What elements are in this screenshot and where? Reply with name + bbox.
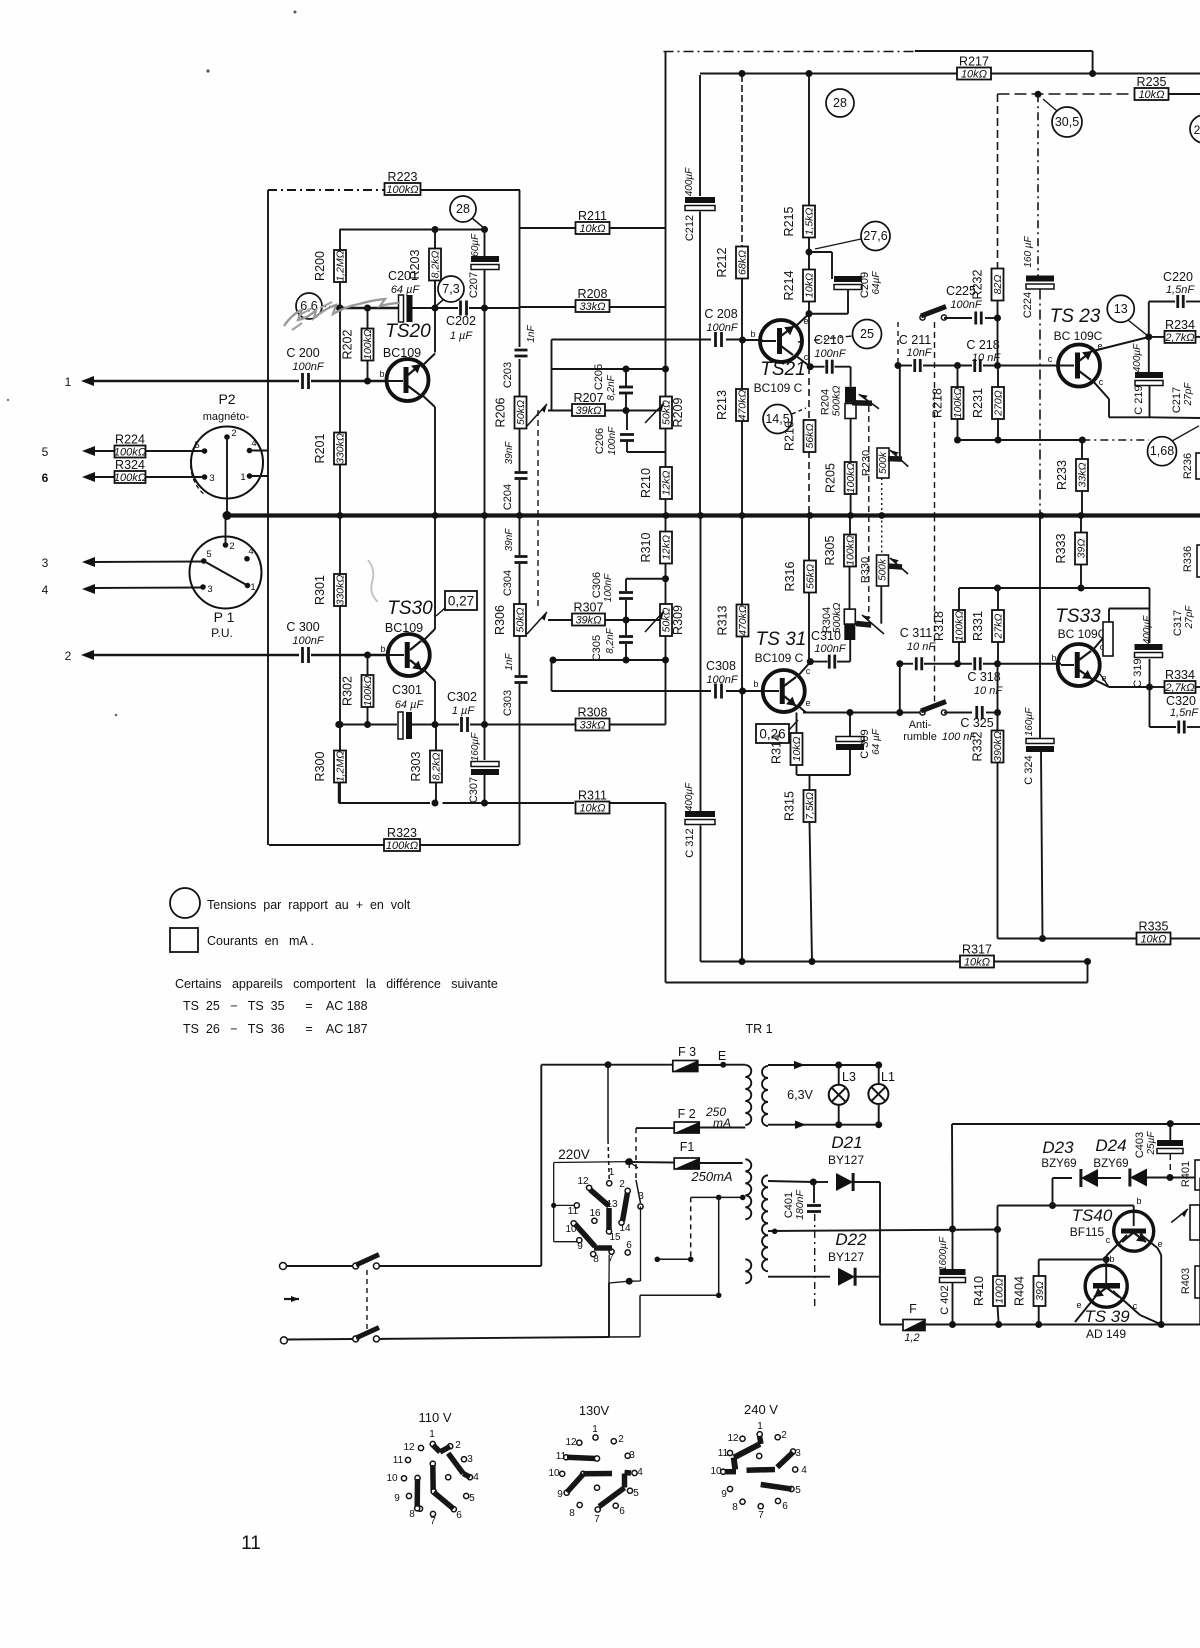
junction rail y1324 bbox=[995, 1321, 1002, 1328]
capacitor C312 400uF bbox=[685, 811, 715, 817]
svg-text:100nF: 100nF bbox=[950, 299, 982, 311]
svg-text:28: 28 bbox=[833, 96, 847, 110]
svg-text:56kΩ: 56kΩ bbox=[805, 564, 817, 589]
wire column x340 upper bbox=[339, 230, 341, 252]
svg-text:10kΩ: 10kΩ bbox=[1138, 89, 1164, 101]
svg-text:R217: R217 bbox=[959, 55, 989, 69]
svg-text:5: 5 bbox=[42, 445, 49, 459]
wire x998 R332 down bbox=[997, 938, 1000, 940]
capacitor C208 100nF bbox=[714, 332, 717, 347]
junction C225-R232 bbox=[994, 315, 1001, 322]
junction selector top right bbox=[626, 1158, 633, 1165]
svg-text:C203: C203 bbox=[502, 362, 514, 388]
lamp circuit bottom wire bbox=[768, 1124, 879, 1126]
svg-text:P2: P2 bbox=[218, 391, 235, 407]
wire bottom border of preamp block bbox=[269, 844, 384, 846]
wire P1 link pin5 to pin1 bbox=[204, 561, 248, 586]
svg-text:R316: R316 bbox=[783, 562, 797, 592]
svg-text:8: 8 bbox=[732, 1502, 738, 1513]
junction B x742 bbox=[739, 958, 746, 965]
wire TS39 emitter bbox=[1075, 1291, 1100, 1322]
svg-text:R213: R213 bbox=[715, 390, 729, 420]
svg-text:TS 25 − TS 35 =: TS 25 − TS 35 = AC 188 bbox=[183, 999, 368, 1013]
svg-text:8,2nF: 8,2nF bbox=[605, 627, 616, 653]
selector 130V bar 4-7 bbox=[625, 1470, 632, 1476]
svg-text:R324: R324 bbox=[115, 458, 145, 472]
dashed switch gang x934 bbox=[934, 322, 936, 516]
wire center tap bbox=[768, 1230, 998, 1232]
selector 110V bar mid vertical bbox=[430, 1461, 435, 1466]
capacitor C318 10nF bbox=[973, 657, 976, 670]
connector P1 P.U. bbox=[190, 537, 262, 609]
svg-text:10 nF: 10 nF bbox=[974, 685, 1003, 697]
svg-text:R230: R230 bbox=[861, 450, 873, 476]
wire x551 corner bbox=[551, 340, 553, 370]
svg-text:4: 4 bbox=[251, 438, 256, 449]
wire y578 C306 link bbox=[626, 578, 666, 580]
svg-text:Certains appareils comport: Certains appareils comportent la différe… bbox=[175, 977, 498, 991]
svg-text:39Ω: 39Ω bbox=[1034, 1281, 1046, 1301]
junction bus x=881 bbox=[878, 512, 885, 519]
svg-text:64µF: 64µF bbox=[871, 271, 882, 295]
svg-text:R300: R300 bbox=[313, 752, 327, 782]
svg-text:30,5: 30,5 bbox=[1055, 115, 1079, 129]
svg-text:e: e bbox=[1076, 1300, 1081, 1310]
junction R302 top bbox=[364, 652, 371, 659]
junction emitter R214 bbox=[806, 310, 813, 317]
capacitor C306 100nF bbox=[625, 579, 627, 591]
svg-text:R315: R315 bbox=[783, 791, 797, 821]
capacitor C308 100nF bbox=[714, 684, 717, 699]
wire TS33 emitter bbox=[1093, 679, 1109, 687]
junction y660 C305 bbox=[623, 657, 630, 664]
svg-text:160 µF: 160 µF bbox=[1023, 235, 1034, 267]
junction y440 R218 bbox=[954, 437, 961, 444]
svg-text:C 324: C 324 bbox=[1023, 755, 1035, 784]
svg-text:10 nF: 10 nF bbox=[907, 641, 936, 653]
junction y1177 x1170 bbox=[1167, 1174, 1174, 1181]
svg-text:BC109 C: BC109 C bbox=[754, 381, 803, 395]
svg-text:50kΩ: 50kΩ bbox=[515, 400, 527, 425]
svg-text:C403: C403 bbox=[1134, 1132, 1146, 1158]
svg-text:C 219: C 219 bbox=[1133, 385, 1145, 414]
speckle marks bbox=[294, 11, 297, 14]
junction x340 main wire bbox=[337, 305, 344, 312]
svg-text:D24: D24 bbox=[1095, 1136, 1126, 1155]
svg-text:250mA: 250mA bbox=[690, 1169, 732, 1184]
wire x608 to selector bbox=[607, 1065, 609, 1140]
selector 220V bar 13-15 bbox=[606, 1208, 612, 1230]
junction R302 bottom bbox=[364, 721, 371, 728]
svg-text:5: 5 bbox=[633, 1488, 639, 1499]
svg-text:C217: C217 bbox=[1171, 387, 1183, 413]
svg-text:BC109 C: BC109 C bbox=[755, 651, 804, 665]
transformer TR1 primary winding lower bbox=[745, 1259, 751, 1283]
capacitor C207 160uF bbox=[484, 230, 486, 257]
capacitor C402 1600uF bbox=[952, 1229, 954, 1269]
svg-text:c: c bbox=[1099, 377, 1104, 387]
svg-text:C201: C201 bbox=[388, 269, 418, 283]
junction y660 left bbox=[550, 657, 557, 664]
svg-text:10: 10 bbox=[548, 1468, 560, 1479]
junction y663 R331 bbox=[994, 660, 1001, 667]
svg-text:C 402: C 402 bbox=[939, 1285, 951, 1314]
selector 130V bar 10-9 bbox=[581, 1471, 586, 1476]
wire P2 pin4 to left border bbox=[250, 450, 269, 452]
wire R314 column bbox=[796, 713, 798, 734]
svg-text:C 208: C 208 bbox=[704, 307, 737, 321]
junction y365 R231 bbox=[994, 362, 1001, 369]
svg-text:160µF: 160µF bbox=[470, 233, 481, 262]
wire y1124 output rail bbox=[952, 1123, 1200, 1125]
transistor TS23 internal leads bbox=[1079, 351, 1092, 361]
capacitor C225 100nF bbox=[944, 317, 972, 319]
transistor TS39 AD149 bbox=[1085, 1265, 1127, 1307]
svg-text:e: e bbox=[803, 316, 808, 326]
svg-text:C305: C305 bbox=[591, 635, 603, 661]
svg-text:R215: R215 bbox=[782, 207, 796, 237]
connector P2 magneto bbox=[191, 427, 263, 499]
capacitor C303 1nF bbox=[515, 675, 528, 678]
capacitor C311 10nF bbox=[915, 657, 918, 670]
svg-text:64 µF: 64 µF bbox=[871, 728, 882, 755]
wire column x809 bbox=[808, 75, 810, 206]
wire main y308 bbox=[340, 307, 399, 310]
svg-text:R200: R200 bbox=[313, 251, 327, 281]
svg-text:15: 15 bbox=[609, 1232, 621, 1243]
wire R203 column bbox=[434, 230, 436, 250]
wire column x340 lower bbox=[339, 516, 341, 575]
svg-text:C307: C307 bbox=[468, 777, 480, 803]
transformer TR1 primary winding upper bbox=[745, 1065, 751, 1125]
svg-text:R210: R210 bbox=[639, 468, 653, 498]
wire x1092 corner bbox=[1092, 51, 1094, 73]
svg-text:160µF: 160µF bbox=[1024, 707, 1035, 736]
measure circle 30,5 bbox=[1052, 107, 1082, 137]
svg-text:8: 8 bbox=[569, 1508, 575, 1519]
capacitor C403 25uF bbox=[1157, 1140, 1183, 1146]
wire x700 lower bbox=[700, 516, 702, 812]
svg-text:R303: R303 bbox=[409, 752, 423, 782]
selector 240V bar 5 bbox=[761, 1485, 792, 1490]
wire TS20 collector bbox=[421, 354, 435, 368]
measure circle 25 bbox=[853, 320, 882, 349]
transistor TS33 internal leads bbox=[1079, 670, 1092, 679]
wire TS23 collector bbox=[1092, 380, 1109, 399]
svg-text:7: 7 bbox=[594, 1514, 600, 1525]
measure circle 28 left bbox=[450, 196, 476, 222]
svg-text:2: 2 bbox=[229, 541, 234, 552]
svg-text:1nF: 1nF bbox=[526, 324, 537, 342]
capacitor C305 8,2nF bbox=[625, 620, 627, 635]
svg-text:rumble: rumble bbox=[903, 731, 937, 743]
junction y588 R331 bbox=[994, 585, 1001, 592]
wire C310 y661 bbox=[810, 661, 827, 663]
measure circle 7,3 bbox=[438, 276, 464, 302]
svg-text:R317: R317 bbox=[962, 943, 992, 957]
svg-text:10: 10 bbox=[386, 1473, 398, 1484]
svg-text:100Ω: 100Ω bbox=[994, 1278, 1006, 1304]
junction y663 left bbox=[896, 660, 903, 667]
svg-text:R231: R231 bbox=[971, 388, 985, 418]
junction C325-R332 bbox=[994, 709, 1001, 716]
wire x850 R304 lower bbox=[849, 640, 851, 662]
svg-text:R313: R313 bbox=[716, 606, 730, 636]
wire x551 corner lower bbox=[551, 660, 553, 691]
junction y724 x435 bbox=[432, 721, 439, 728]
svg-text:BC 109C: BC 109C bbox=[1058, 627, 1107, 641]
lamp L3 bbox=[829, 1085, 849, 1105]
junction y308 C207 bbox=[481, 305, 488, 312]
lamp circuit top wire bbox=[768, 1064, 879, 1066]
wire D21 anode bbox=[768, 1181, 813, 1182]
svg-text:2,7kΩ: 2,7kΩ bbox=[1164, 332, 1194, 344]
junction bus x=742 bbox=[739, 512, 746, 519]
svg-text:Tensions par rapport au +: Tensions par rapport au + en volt bbox=[207, 898, 411, 912]
svg-text:F1: F1 bbox=[680, 1140, 695, 1154]
wire column x742 lower bbox=[741, 516, 743, 606]
wire y1259 R404 bbox=[1039, 1259, 1107, 1261]
svg-text:33kΩ: 33kΩ bbox=[579, 301, 605, 313]
svg-text:R207: R207 bbox=[574, 391, 604, 405]
svg-text:R302: R302 bbox=[341, 676, 355, 706]
wire R308 y724 bbox=[520, 724, 577, 726]
wire left border of preamp block bbox=[267, 190, 269, 845]
svg-text:e: e bbox=[1157, 1239, 1162, 1249]
junction R234 node bbox=[1145, 333, 1152, 340]
svg-text:R404: R404 bbox=[1013, 1276, 1027, 1306]
svg-text:D22: D22 bbox=[835, 1230, 867, 1249]
wire R410 column bbox=[997, 1206, 999, 1277]
svg-text:C301: C301 bbox=[392, 683, 422, 697]
svg-text:100kΩ: 100kΩ bbox=[114, 472, 146, 484]
svg-text:6: 6 bbox=[626, 1240, 632, 1251]
junction y440 R233 bbox=[1079, 437, 1086, 444]
transistor TS31 BC109C bbox=[763, 670, 805, 712]
svg-text:BY127: BY127 bbox=[828, 1153, 864, 1167]
wire TS30 emitter bbox=[422, 668, 435, 681]
svg-text:F 3: F 3 bbox=[678, 1045, 696, 1059]
capacitor C211 10nF bbox=[913, 359, 916, 372]
svg-text:C206: C206 bbox=[594, 428, 606, 454]
wire C210 y366 bbox=[810, 366, 824, 368]
svg-text:10kΩ: 10kΩ bbox=[791, 737, 803, 762]
transistor TS20 internal leads bbox=[408, 364, 421, 375]
selector 110V bar 2-4 bbox=[448, 1453, 463, 1473]
svg-text:C302: C302 bbox=[447, 690, 477, 704]
junction C402 top bbox=[949, 1226, 956, 1233]
wire x339 R300 bottom bbox=[338, 783, 340, 804]
svg-text:b: b bbox=[379, 369, 384, 379]
svg-text:1: 1 bbox=[592, 1424, 598, 1435]
potentiometer R337 edge bbox=[1103, 622, 1113, 656]
wire y663 coupling lower bbox=[900, 663, 913, 665]
svg-text:7,5kΩ: 7,5kΩ bbox=[804, 792, 816, 820]
svg-text:7: 7 bbox=[430, 1516, 436, 1527]
pencil scribble bbox=[284, 299, 400, 326]
svg-text:220V: 220V bbox=[558, 1147, 590, 1162]
junction B right bbox=[1084, 958, 1091, 965]
svg-text:64 µF: 64 µF bbox=[391, 284, 421, 296]
svg-text:100kΩ: 100kΩ bbox=[954, 611, 966, 642]
junction TS39 base bbox=[1103, 1256, 1110, 1263]
wire switch to F3 bbox=[379, 1265, 541, 1267]
svg-text:b: b bbox=[380, 644, 385, 654]
svg-text:R310: R310 bbox=[639, 533, 653, 563]
svg-text:12: 12 bbox=[403, 1442, 415, 1453]
svg-text:C317: C317 bbox=[1172, 610, 1184, 636]
selector 220V outline bbox=[553, 1163, 555, 1242]
svg-text:330kΩ: 330kΩ bbox=[335, 433, 347, 464]
svg-text:470kΩ: 470kΩ bbox=[737, 390, 749, 421]
capacitor C309 64uF bbox=[849, 713, 851, 739]
wire R315 down bbox=[810, 822, 813, 962]
svg-text:100nF: 100nF bbox=[814, 643, 846, 655]
svg-text:b: b bbox=[1109, 1254, 1114, 1264]
dashed x898 bbox=[897, 322, 899, 362]
svg-text:1: 1 bbox=[65, 375, 72, 389]
junction y440 R231 bbox=[995, 437, 1002, 444]
transformer secondary lower bbox=[762, 1175, 768, 1271]
selector 220V bar 2-14 bbox=[623, 1193, 628, 1222]
svg-text:R201: R201 bbox=[313, 434, 327, 464]
svg-text:8,2kΩ: 8,2kΩ bbox=[430, 251, 442, 279]
selector 240V bar 11-10 bbox=[734, 1458, 736, 1470]
resistor R334 bbox=[1150, 686, 1166, 688]
svg-text:1,2: 1,2 bbox=[904, 1332, 919, 1344]
wire switch lower to selector bbox=[379, 1337, 609, 1339]
junction y724 x339 bbox=[335, 721, 342, 728]
capacitor C302 1uF bbox=[460, 717, 463, 732]
svg-text:P.U.: P.U. bbox=[211, 626, 233, 640]
svg-text:TS33: TS33 bbox=[1055, 606, 1101, 627]
junction y724 C307 bbox=[481, 721, 488, 728]
svg-text:b: b bbox=[1051, 653, 1056, 663]
svg-text:C304: C304 bbox=[502, 570, 514, 596]
svg-text:C 309: C 309 bbox=[859, 729, 871, 758]
wire rail x519 segments bbox=[519, 190, 521, 347]
svg-text:6: 6 bbox=[42, 471, 49, 485]
svg-text:27pF: 27pF bbox=[1183, 382, 1194, 407]
svg-text:330kΩ: 330kΩ bbox=[335, 575, 347, 606]
svg-text:C 319: C 319 bbox=[1132, 658, 1144, 687]
junction R307-C305 bbox=[623, 617, 630, 624]
svg-text:C212: C212 bbox=[684, 215, 696, 241]
wire y369 link bbox=[552, 368, 666, 370]
junction x666 y578 bbox=[662, 575, 669, 582]
svg-text:C205: C205 bbox=[593, 364, 605, 390]
selector 220V bar 10-9 bbox=[575, 1224, 595, 1247]
junction selector bottom right bbox=[626, 1278, 633, 1285]
selector 240V bar mid bbox=[747, 1467, 776, 1473]
svg-text:9: 9 bbox=[577, 1241, 583, 1252]
svg-text:c: c bbox=[1048, 354, 1053, 364]
junction y73 R212 bbox=[739, 70, 746, 77]
svg-text:C 211: C 211 bbox=[899, 333, 931, 347]
junction R203 main wire bbox=[432, 305, 439, 312]
svg-text:c: c bbox=[1133, 1301, 1138, 1311]
svg-text:BZY69: BZY69 bbox=[1041, 1158, 1076, 1170]
selector 220V bar 8-7 bbox=[594, 1245, 612, 1251]
svg-text:10kΩ: 10kΩ bbox=[964, 957, 990, 969]
svg-text:C320: C320 bbox=[1166, 694, 1196, 708]
svg-text:10kΩ: 10kΩ bbox=[579, 223, 605, 235]
svg-text:R202: R202 bbox=[341, 330, 355, 360]
junction bus x=519 bbox=[516, 512, 523, 519]
junction C211 wire bbox=[895, 362, 902, 369]
svg-text:c: c bbox=[806, 666, 811, 676]
svg-text:12: 12 bbox=[565, 1437, 577, 1448]
svg-text:100kΩ: 100kΩ bbox=[386, 184, 418, 196]
wire x849 R305 link bbox=[849, 566, 851, 609]
svg-text:R308: R308 bbox=[578, 706, 608, 720]
wire rectifier x880 bbox=[879, 1182, 881, 1277]
svg-text:50kΩ: 50kΩ bbox=[661, 608, 673, 633]
svg-text:F 2: F 2 bbox=[678, 1107, 696, 1121]
wire TS40 collector bbox=[1106, 1235, 1127, 1256]
svg-text:2,7kΩ: 2,7kΩ bbox=[1164, 682, 1194, 694]
measure circle 14,5 bbox=[763, 405, 792, 434]
wire TS33 collector bbox=[1092, 631, 1109, 651]
selector 240V bar 3 bbox=[777, 1452, 793, 1467]
svg-text:BF115: BF115 bbox=[1070, 1225, 1105, 1239]
transistor TS31 internal leads bbox=[784, 696, 796, 706]
wire TS20 emitter bbox=[421, 394, 435, 407]
svg-text:2: 2 bbox=[781, 1430, 787, 1441]
switch C225 record/play bbox=[920, 315, 925, 320]
svg-text:6: 6 bbox=[782, 1501, 788, 1512]
svg-text:1,2MΩ: 1,2MΩ bbox=[335, 751, 347, 782]
wire x899 link bbox=[899, 664, 901, 713]
wire R207 y410 bbox=[548, 410, 573, 412]
svg-text:3: 3 bbox=[467, 1454, 473, 1465]
svg-text:4: 4 bbox=[473, 1472, 479, 1483]
measure box 0,27 bbox=[445, 591, 477, 610]
svg-text:R401: R401 bbox=[1180, 1161, 1192, 1187]
svg-text:R208: R208 bbox=[578, 287, 608, 301]
wire rail x666 lower bbox=[665, 516, 667, 533]
junction y369 C205 bbox=[623, 366, 630, 373]
switch C325 anti-rumble bbox=[920, 710, 925, 715]
svg-text:D21: D21 bbox=[831, 1133, 862, 1152]
bus main horizontal supply rail bbox=[227, 513, 1200, 517]
svg-text:33kΩ: 33kΩ bbox=[579, 720, 605, 732]
transformer TR1 primary winding middle bbox=[745, 1159, 751, 1219]
svg-text:R212: R212 bbox=[715, 248, 729, 278]
wire x1087 corner bbox=[1087, 962, 1089, 983]
svg-text:F: F bbox=[909, 1302, 917, 1316]
mains switch upper pole bbox=[280, 1263, 287, 1270]
svg-text:100nF: 100nF bbox=[292, 635, 324, 647]
svg-text:e: e bbox=[1097, 341, 1102, 351]
wire top dashdot y51 bbox=[664, 51, 915, 53]
junction bus x=850 bbox=[847, 512, 854, 519]
selector 110V bar 1-2 bbox=[433, 1445, 440, 1452]
wire y229 collector feed bbox=[340, 229, 487, 231]
potentiometer R402 edge bbox=[1190, 1205, 1200, 1240]
svg-text:2: 2 bbox=[455, 1440, 461, 1451]
capacitor C204 39nF bbox=[515, 471, 528, 474]
wire TS30 collector bbox=[422, 629, 435, 642]
svg-text:4: 4 bbox=[42, 583, 49, 597]
capacitor C325 100nF bbox=[944, 712, 972, 714]
svg-text:R323: R323 bbox=[387, 826, 417, 840]
svg-text:R216: R216 bbox=[783, 421, 797, 451]
junction A C324 bbox=[1039, 935, 1046, 942]
junction y365 R218 bbox=[954, 362, 961, 369]
svg-text:1,5kΩ: 1,5kΩ bbox=[804, 208, 816, 236]
transistor TS30 BC109 bbox=[388, 634, 430, 676]
